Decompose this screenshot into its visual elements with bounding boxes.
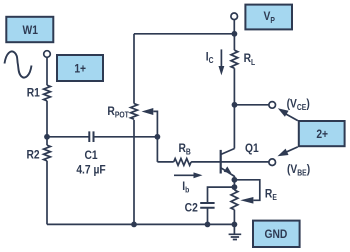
sine wave source symbol [5, 51, 32, 77]
terminal circle: W1 node [44, 51, 51, 58]
label box 2+ [299, 121, 345, 146]
resistor RE [231, 190, 238, 210]
wire: left vertical bottom (R2 to ground rail) [46, 161, 48, 225]
label box 1+ [57, 55, 103, 81]
transistor Q1 emitter diagonal [221, 168, 235, 177]
arrow from 2+ box to VBE shaft [285, 147, 298, 153]
capacitor C1 [89, 131, 93, 142]
arrowhead RE wiper [240, 197, 253, 204]
potentiometer RPOT [131, 104, 138, 120]
transistor Q1 base bar [220, 150, 222, 174]
junction dot: top rail / VP [232, 31, 238, 37]
junction dot: RE / ground [232, 222, 238, 228]
wire: RE to ground node [233, 210, 235, 225]
resistor RB [174, 159, 191, 166]
resistor R1 [44, 85, 51, 101]
arrowhead emitter of Q1 [224, 166, 232, 173]
wire: RE wiper elbow [234, 180, 259, 201]
arrowhead 2+ to VCE [278, 108, 289, 117]
junction dot: emitter / RE wiper [232, 177, 238, 183]
arrowhead 2+ to VBE [278, 149, 289, 157]
svg-text:Q1: Q1 [245, 142, 259, 155]
svg-text:2+: 2+ [316, 128, 328, 141]
wire: middle vertical bottom (RPOT to ground rail) [133, 120, 135, 225]
svg-text:W1: W1 [22, 24, 38, 37]
capacitor C2 [200, 203, 214, 208]
svg-text:C1: C1 [84, 149, 98, 162]
junction dot: emitter / C2 branch [232, 184, 238, 190]
resistor R2 [44, 145, 51, 161]
junction dot: R2 top / C1 branch [44, 134, 50, 140]
wire: bottom rail [47, 223, 234, 225]
wire: RB to base bar and on to VBE terminal [191, 161, 269, 163]
terminal circle: VBE node [269, 159, 276, 166]
junction dot: collector / VCE [232, 102, 238, 108]
resistor RL [231, 50, 238, 68]
current arrow Ib shaft [174, 174, 194, 176]
arrowhead Ib [194, 172, 203, 178]
svg-text:C2: C2 [185, 202, 198, 215]
label box W1 [6, 17, 53, 42]
terminal circle: VP node [231, 13, 238, 20]
wire: C2 branch elbow [208, 187, 235, 203]
arrowhead IC [219, 66, 225, 75]
svg-text:4.7 µF: 4.7 µF [76, 164, 105, 177]
transistor Q1 collector diagonal [221, 149, 235, 155]
wire: middle vertical top (top rail to RPOT) [133, 34, 135, 104]
wire: C1 branch left [47, 136, 89, 138]
wire: VP stub [233, 20, 235, 34]
junction dot: C2 at bottom rail [205, 222, 211, 228]
svg-text:1+: 1+ [74, 63, 86, 76]
wire: left vertical top (node W1 to R1) [46, 57, 48, 85]
wire: VCE measurement stub [234, 104, 269, 106]
arrowhead RPOT wiper [142, 108, 154, 115]
svg-text:R2: R2 [26, 149, 39, 162]
wire: top rail [134, 33, 234, 35]
wire: C2 to ground rail [207, 208, 209, 225]
svg-text:GND: GND [264, 228, 287, 241]
terminal circle: VCE node [269, 102, 276, 109]
wire: left vertical middle (R1 to R2) [46, 101, 48, 145]
wire: base node to RB [157, 161, 173, 163]
wire: RPOT wiper elbow down to base node [153, 111, 157, 161]
arrow from 2+ box to VCE shaft [285, 113, 298, 120]
junction dot: middle vertical at bottom rail [131, 222, 137, 228]
wire: RL to collector of Q1 [233, 68, 235, 148]
current arrow IC shaft [220, 49, 222, 66]
svg-text:R1: R1 [27, 87, 41, 100]
ground [229, 224, 242, 239]
wire: C1 branch right to wiper node [94, 136, 158, 138]
wire: collector branch (top rail to RL) [233, 34, 235, 50]
label box GND [253, 221, 300, 247]
junction dot: wiper node [155, 134, 161, 140]
label box VP [245, 5, 292, 30]
wire: emitter vertical to RE [233, 176, 235, 190]
